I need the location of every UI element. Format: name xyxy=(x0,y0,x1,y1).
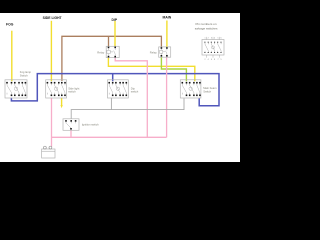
svg-text:4: 4 xyxy=(208,59,209,61)
svg-text:7: 7 xyxy=(218,59,219,61)
svg-text:MAIN: MAIN xyxy=(163,15,172,19)
svg-text:Switch: Switch xyxy=(203,89,211,93)
svg-text:6: 6 xyxy=(211,59,212,61)
svg-text:Pin numbers on: Pin numbers on xyxy=(196,22,217,26)
svg-text:salvage switches: salvage switches xyxy=(195,26,218,30)
svg-text:Fog lamp: Fog lamp xyxy=(20,70,32,74)
svg-text:5: 5 xyxy=(218,38,219,40)
svg-text:switch: switch xyxy=(131,90,139,94)
svg-text:2: 2 xyxy=(208,38,209,40)
svg-text:1: 1 xyxy=(205,38,206,40)
svg-text:Relay: Relay xyxy=(150,50,158,54)
svg-text:4: 4 xyxy=(214,38,215,40)
svg-text:FOG: FOG xyxy=(6,23,14,27)
svg-text:SIDE LIGHT: SIDE LIGHT xyxy=(43,16,63,20)
svg-text:5: 5 xyxy=(221,59,222,61)
svg-text:8: 8 xyxy=(214,59,215,61)
svg-text:Ignition switch: Ignition switch xyxy=(82,122,99,126)
svg-text:2: 2 xyxy=(205,59,206,61)
svg-text:3: 3 xyxy=(211,38,212,40)
svg-text:switch: switch xyxy=(68,90,76,94)
svg-text:DIP: DIP xyxy=(112,18,118,22)
svg-text:Relay: Relay xyxy=(97,50,105,54)
svg-text:6: 6 xyxy=(221,38,222,40)
svg-text:Switch: Switch xyxy=(20,74,28,78)
